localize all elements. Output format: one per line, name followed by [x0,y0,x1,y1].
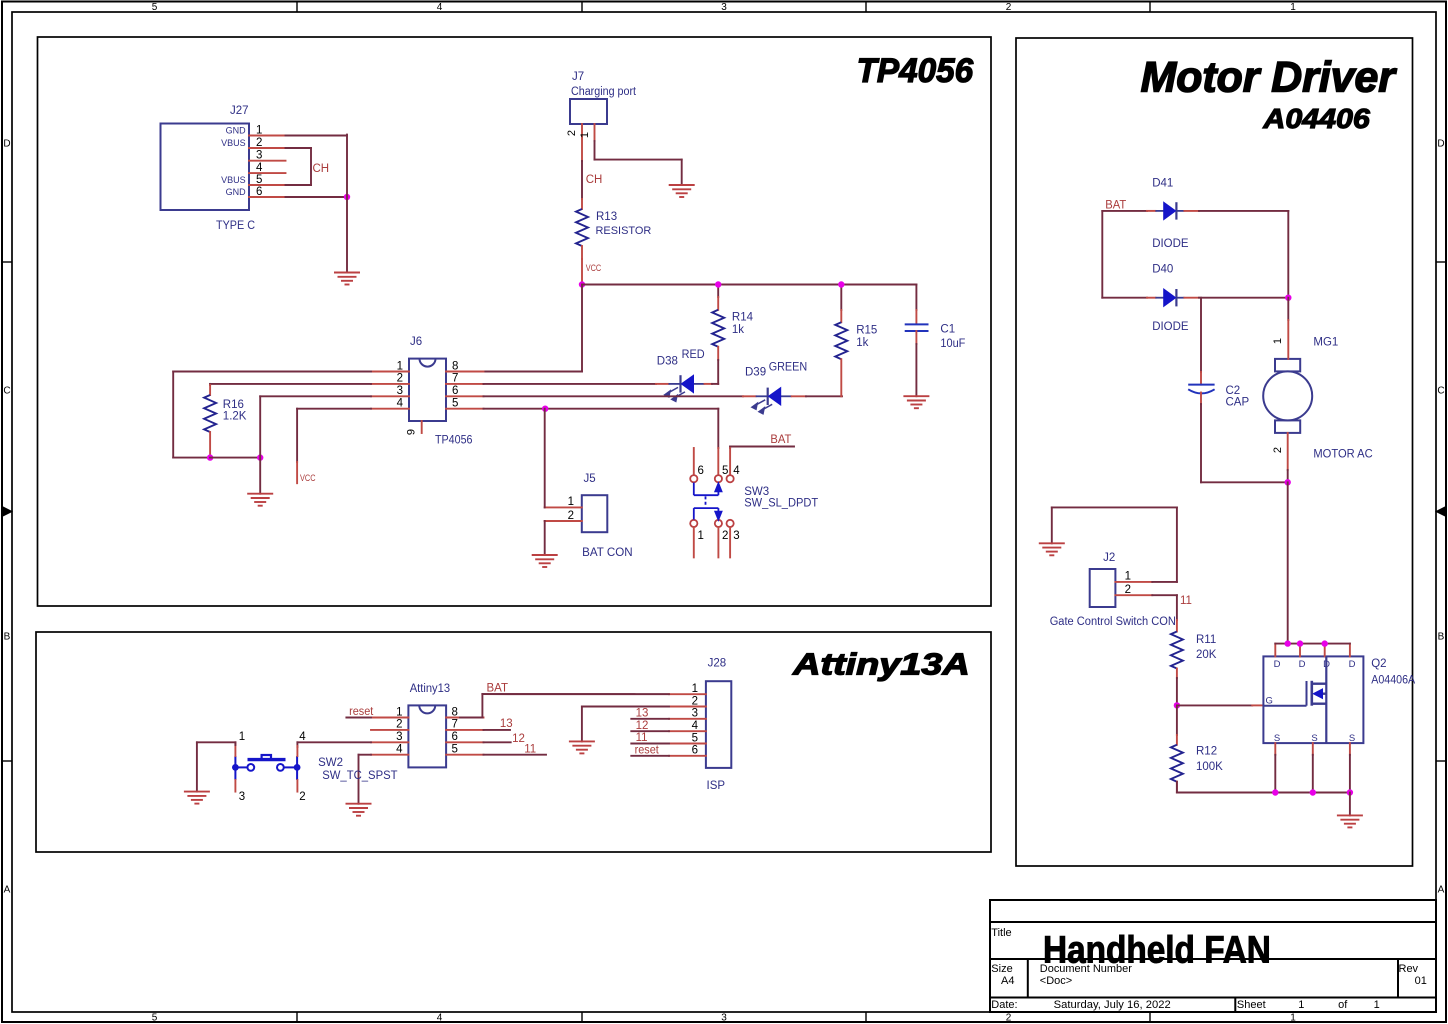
ground Attiny pin4 [346,804,372,816]
svg-text:3: 3 [733,530,739,542]
svg-text:4: 4 [256,162,263,174]
svg-text:1: 1 [1374,999,1380,1011]
Attiny left pin stubs [371,717,408,719]
capacitor C1 [915,285,917,311]
svg-text:VBUS: VBUS [221,175,246,185]
svg-text:of: of [1338,999,1348,1011]
connector J5 BAT CON [582,495,608,532]
svg-text:4: 4 [396,744,403,756]
svg-text:6: 6 [256,186,262,198]
wire J27 pin1 to node [286,135,348,137]
svg-text:2: 2 [568,510,574,522]
svg-text:Q2: Q2 [1371,658,1386,670]
junction source1 [1272,789,1278,795]
svg-text:Document Number: Document Number [1040,963,1132,975]
junction source2 [1310,789,1316,795]
svg-text:D41: D41 [1152,178,1173,190]
Q2 source stubs [1274,743,1276,755]
ground Q2 [1337,815,1363,827]
J5 pin1 wire [545,506,582,508]
junction drain2 [1297,640,1303,646]
svg-text:1: 1 [239,731,245,743]
svg-text:1: 1 [1272,338,1284,344]
connector J2 Gate Control [1090,569,1116,607]
gnd rail wire [210,457,260,459]
svg-text:5: 5 [452,744,458,756]
ground J28 pin2 [569,741,595,753]
svg-text:Motor Driver: Motor Driver [1141,53,1398,101]
capacitor C2 [1200,298,1202,372]
svg-text:3: 3 [721,1013,727,1024]
svg-text:2: 2 [396,719,402,731]
svg-text:1: 1 [1290,1013,1296,1024]
svg-text:Attiny13: Attiny13 [410,683,450,695]
wire BAT to SW3 pin4 [730,446,794,448]
svg-text:SW2: SW2 [318,757,343,769]
J2 pin2 wire [1115,594,1152,596]
svg-text:BAT: BAT [487,683,509,695]
svg-text:C1: C1 [940,324,955,336]
svg-text:11: 11 [1180,595,1192,607]
svg-text:J5: J5 [584,473,596,485]
svg-text:A04406: A04406 [1262,103,1370,134]
svg-text:Title: Title [991,927,1011,939]
J27 pin stubs [249,135,286,137]
svg-text:TP4056: TP4056 [857,52,974,90]
svg-text:11: 11 [636,732,648,744]
svg-text:100K: 100K [1196,761,1223,773]
svg-text:SW_TC_SPST: SW_TC_SPST [322,770,397,782]
resistor R12 [1176,705,1178,735]
J2 pin1 wire [1115,581,1152,583]
wire source rail to ground [1349,793,1351,816]
svg-text:D: D [1437,139,1444,150]
svg-text:1: 1 [396,706,402,718]
resistor R11 [1176,595,1178,620]
svg-text:1: 1 [692,683,698,695]
svg-text:4: 4 [692,720,699,732]
J5 pin2 wire to ground [545,520,582,522]
svg-text:C2: C2 [1226,385,1241,397]
wire motor to Q2 rail [1287,482,1289,643]
wire J28 pin3 net 13 [631,718,669,720]
svg-text:J27: J27 [230,105,249,117]
diode D40 [1102,297,1147,299]
diode D41 [1102,210,1147,212]
IC J6 TP4056 [409,359,446,421]
svg-text:12: 12 [512,733,525,745]
MG1 pin1 stub [1287,298,1289,320]
svg-text:20K: 20K [1196,649,1217,661]
wire down to SW3 pin5 [717,409,719,448]
svg-text:R14: R14 [732,312,754,324]
svg-text:RED: RED [682,349,705,361]
SW2 pin1 wire to ground [234,744,236,756]
svg-text:B: B [1438,632,1445,643]
svg-text:4: 4 [397,398,404,410]
svg-text:8: 8 [452,360,458,372]
svg-text:DIODE: DIODE [1152,238,1189,250]
svg-text:Gate Control Switch CON: Gate Control Switch CON [1050,616,1176,628]
svg-text:MOTOR AC: MOTOR AC [1313,449,1372,461]
svg-text:4: 4 [437,1013,443,1024]
junction J27 gnd node [344,194,350,200]
svg-text:VBUS: VBUS [221,138,246,148]
Attiny13A section box [36,632,991,852]
svg-text:TP4056: TP4056 [435,435,473,447]
junction J5 tap [542,406,548,412]
svg-text:1: 1 [1290,2,1296,13]
svg-text:J6: J6 [410,336,422,348]
svg-text:1: 1 [1125,571,1131,583]
svg-text:2: 2 [299,791,305,803]
wire J28 pin6 reset [631,755,669,757]
svg-text:CH: CH [586,174,603,186]
wire J6 pin5 BAT row [484,408,719,410]
svg-text:3: 3 [692,708,698,720]
svg-text:5: 5 [152,2,158,13]
svg-text:5: 5 [722,465,728,477]
J28 pin stubs [669,693,706,695]
J6 right pin stubs [446,371,484,373]
svg-text:2: 2 [397,373,403,385]
connector J27 TYPE C [161,124,250,211]
svg-text:5: 5 [452,398,458,410]
junction pin3 gnd [257,454,263,460]
svg-text:1k: 1k [856,337,868,349]
wire VCC down to J6 pin8 [581,285,583,372]
svg-text:1: 1 [698,530,704,542]
wire J7 pin1 to ground [594,141,596,160]
svg-text:6: 6 [452,731,458,743]
svg-text:2: 2 [1006,2,1012,13]
J7 pin1 stub [594,124,596,141]
svg-text:R16: R16 [223,399,244,411]
net label reset at pin1 [346,717,371,719]
svg-text:CAP: CAP [1226,396,1250,408]
svg-text:Date:: Date: [991,999,1017,1011]
wire J28 pin5 net 11 [631,743,669,745]
svg-text:BAT CON: BAT CON [582,547,633,559]
wire R13 to VCC node [581,259,583,285]
svg-text:1: 1 [568,496,574,508]
svg-text:5: 5 [152,1013,158,1024]
connector J28 ISP [706,681,731,768]
svg-text:C: C [1437,386,1444,397]
wire BAT-D40 left vertical [1101,211,1103,298]
svg-text:SW_SL_DPDT: SW_SL_DPDT [744,498,818,510]
wire vertical to ground [346,135,348,273]
svg-text:3: 3 [397,385,403,397]
wire D41 right vertical [1287,211,1289,298]
VCC rail wire [582,284,916,286]
TP4056 section box [38,37,992,606]
resistor R16 [209,385,211,395]
svg-text:R15: R15 [856,325,877,337]
svg-text:2: 2 [692,695,698,707]
svg-text:1: 1 [256,124,262,136]
Attiny right pin stubs [446,717,483,719]
svg-text:D: D [3,139,10,150]
svg-text:Saturday, July 16, 2022: Saturday, July 16, 2022 [1054,999,1171,1011]
junction R15 top [838,281,844,287]
ground J2 [1039,543,1065,555]
wire J6 pin3 down to ground [260,395,371,397]
wire Attiny pin6 net 12 [484,741,511,743]
svg-text:A: A [1438,885,1445,896]
MOSFET Q2 A04406A [1263,656,1363,743]
svg-text:VCC: VCC [586,263,602,274]
junction drain3 [1322,640,1328,646]
svg-text:D39: D39 [745,367,766,379]
svg-text:VCC: VCC [300,473,316,484]
Motor Driver section box [1016,38,1413,866]
wire J28 pin4 net 12 [631,730,669,732]
MG1 pin2 stub [1287,433,1289,470]
svg-text:A4: A4 [1001,975,1014,987]
svg-text:3: 3 [396,731,402,743]
svg-text:D: D [1349,659,1356,670]
wire R14 to D38 [717,360,719,384]
Q2 mosfet symbol [1263,656,1326,743]
LED D38 red [484,383,657,385]
Q2 top pin stubs [1274,644,1276,657]
svg-text:D40: D40 [1152,264,1173,276]
svg-text:12: 12 [636,720,649,732]
wire Attiny pin7 net 13 [484,729,511,731]
svg-text:1.2K: 1.2K [223,411,247,423]
svg-text:A: A [4,885,11,896]
svg-text:BAT: BAT [1105,200,1126,212]
svg-text:10uF: 10uF [940,338,965,350]
wire Attiny pin8 BAT [460,717,482,719]
junction motor bottom [1285,479,1291,485]
svg-text:GND: GND [226,125,247,135]
svg-text:1: 1 [1298,999,1304,1011]
wire J27 pin6 to ground node [286,196,348,198]
svg-text:2: 2 [566,130,578,136]
svg-text:5: 5 [692,732,698,744]
ground J6 pin3 [247,494,273,506]
svg-text:BAT: BAT [770,434,791,446]
junction R16 bottom [207,454,213,460]
wire J27 pin2 CH loop [286,147,312,149]
svg-text:4: 4 [437,2,443,13]
junction D40 out [1285,295,1291,301]
svg-text:DIODE: DIODE [1152,321,1189,333]
wire Attiny pin3 to SW2 [297,741,371,743]
svg-text:Attiny13A: Attiny13A [792,647,970,682]
SW2 pin3 stub [234,780,236,792]
wire gate node to Q2 G [1177,704,1252,706]
svg-text:13: 13 [500,718,513,730]
svg-text:D: D [1274,659,1281,670]
wire Attiny pin5 net 11 [484,754,547,756]
svg-text:2: 2 [1272,447,1284,453]
SW2 pin2 stub [296,780,298,792]
junction R14 top [715,281,721,287]
junction source3 [1347,789,1353,795]
svg-text:3: 3 [239,791,245,803]
source rail wire [1177,792,1350,794]
svg-text:J7: J7 [572,71,584,83]
junction motor-drain [1285,640,1291,646]
svg-text:2: 2 [1006,1013,1012,1024]
ground TYPE C [334,273,360,285]
junction VCC node [579,281,585,287]
resistor R15 [840,285,842,311]
svg-text:Sheet: Sheet [1237,999,1266,1011]
svg-text:Charging port: Charging port [571,86,637,98]
wire J6 pin1 to gnd rail [173,371,371,373]
svg-text:01: 01 [1415,975,1427,987]
svg-text:D38: D38 [657,356,678,368]
ground J7 [669,185,695,197]
svg-text:2: 2 [722,530,728,542]
wire Attiny pin4 to ground [359,754,372,756]
svg-text:RESISTOR: RESISTOR [596,225,652,237]
svg-text:TYPE C: TYPE C [216,220,255,232]
wire BAT to J28 pin1 [482,693,669,695]
junction gate node [1174,702,1180,708]
ground SW2 [184,792,210,804]
svg-text:B: B [4,632,11,643]
svg-text:8: 8 [452,706,458,718]
wire J6 pin2 to R16 [210,383,371,385]
Q2 drain rail [1275,643,1350,645]
svg-text:1k: 1k [732,324,744,336]
svg-text:J28: J28 [708,658,727,670]
switch SW3 SW_SL_DPDT [693,448,695,475]
svg-text:R12: R12 [1196,746,1217,758]
wire J28 pin2 to ground [582,706,669,708]
svg-text:7: 7 [452,373,458,385]
svg-text:4: 4 [299,731,306,743]
ground C1 [903,396,929,408]
svg-text:4: 4 [733,465,740,477]
svg-text:3: 3 [256,150,262,162]
svg-text:6: 6 [452,385,458,397]
svg-text:D: D [1299,659,1306,670]
svg-text:R11: R11 [1196,634,1216,646]
svg-text:6: 6 [698,465,704,477]
svg-text:J2: J2 [1103,552,1115,564]
wire J2 pin1 to ground loop [1176,507,1178,582]
svg-text:5: 5 [256,174,262,186]
svg-text:MG1: MG1 [1313,337,1338,349]
svg-text:2: 2 [1125,584,1131,596]
motor MG1 [1263,359,1312,433]
svg-text:SW3: SW3 [744,486,769,498]
svg-text:Size: Size [991,963,1012,975]
wire J6 pin4 to VCC stub [297,408,371,410]
svg-text:reset: reset [635,745,660,757]
svg-text:9: 9 [406,429,418,435]
svg-text:R13: R13 [596,211,617,223]
SW2 pin4 stub [296,746,298,756]
svg-text:11: 11 [524,744,536,756]
ground J5 [532,555,558,567]
resistor R14 [717,285,719,298]
svg-text:<Doc>: <Doc> [1040,975,1072,987]
svg-text:1: 1 [397,360,403,372]
resistor R13 [581,199,583,209]
connector J7 Charging port [570,99,607,124]
svg-text:Rev: Rev [1399,963,1419,975]
SW3 bottom stubs [693,527,695,557]
switch SW2 SW_TC_SPST [235,755,297,780]
J7 pin2 stub [581,124,583,161]
svg-text:1: 1 [579,132,591,138]
svg-text:2: 2 [256,137,262,149]
svg-text:ISP: ISP [707,780,726,792]
J6 left pin stubs [371,371,409,373]
J6 pin9 stub [421,421,423,433]
svg-text:reset: reset [349,706,374,718]
svg-text:GND: GND [226,187,247,197]
svg-text:A04406A: A04406A [1371,675,1415,687]
title block [990,900,1436,1012]
svg-text:CH: CH [313,163,330,175]
svg-text:C: C [3,386,10,397]
wire CH to R13 [581,161,583,199]
svg-text:7: 7 [452,719,458,731]
svg-text:GREEN: GREEN [769,362,808,374]
IC Attiny13 [408,705,446,767]
svg-text:13: 13 [636,708,649,720]
LED D39 green [484,395,744,397]
svg-text:3: 3 [721,2,727,13]
svg-text:6: 6 [692,745,698,757]
